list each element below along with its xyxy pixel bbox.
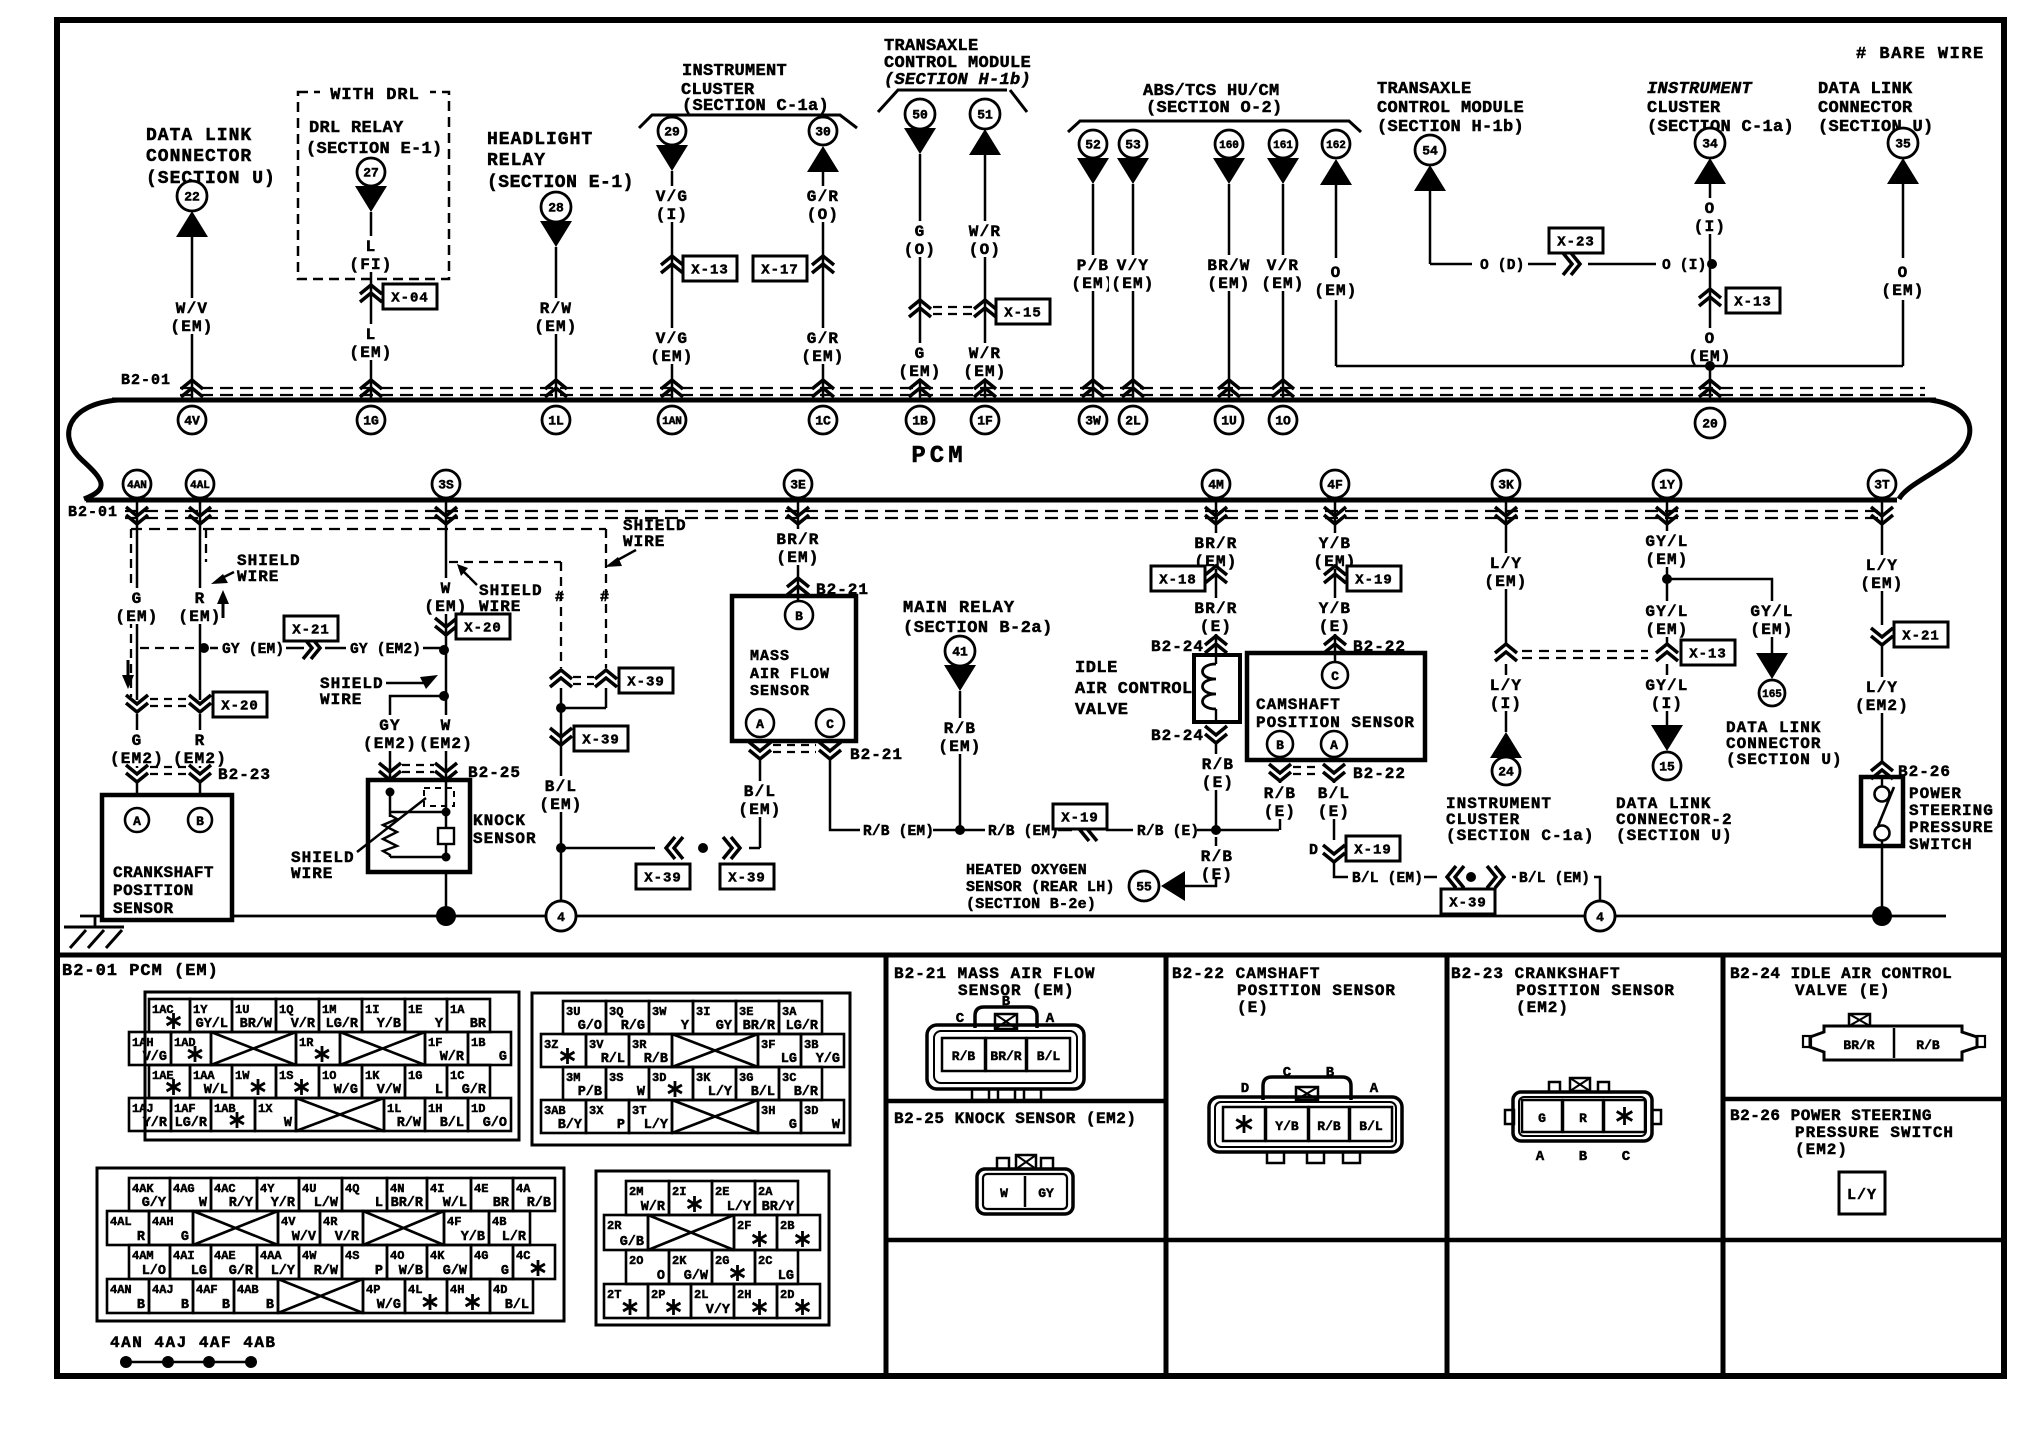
svg-text:GY/L: GY/L	[1750, 603, 1793, 621]
power steering pressure switch box	[1861, 777, 1903, 846]
camshaft position sensor column 4F	[1324, 507, 1346, 524]
svg-text:C: C	[1283, 1065, 1292, 1081]
svg-text:SENSOR: SENSOR	[113, 900, 174, 918]
svg-text:DATA LINK: DATA LINK	[146, 126, 252, 146]
inline connector X-19 D	[1309, 836, 1400, 862]
svg-text:R/B: R/B	[1317, 1119, 1341, 1134]
svg-text:1X: 1X	[258, 1102, 273, 1116]
terminal circle 165	[1759, 680, 1785, 706]
svg-text:R/B (EM): R/B (EM)	[863, 824, 934, 840]
svg-text:3T: 3T	[632, 1104, 646, 1118]
svg-text:1O: 1O	[322, 1069, 336, 1083]
svg-text:2R: 2R	[607, 1219, 622, 1233]
pin B MAF	[785, 601, 813, 629]
svg-text:L/Y: L/Y	[708, 1085, 733, 1100]
connector arrow 160	[1213, 158, 1245, 184]
wire G (O) from 50	[902, 154, 938, 399]
svg-text:3Z: 3Z	[544, 1038, 558, 1052]
svg-text:4D: 4D	[493, 1283, 507, 1297]
direction arrow down	[122, 660, 134, 689]
svg-text:3E: 3E	[739, 1005, 753, 1019]
pin circle 1G	[357, 406, 385, 434]
svg-text:B2-01: B2-01	[68, 504, 118, 521]
svg-text:2T: 2T	[607, 1288, 621, 1302]
terminal circle 27	[357, 158, 385, 186]
wire Y/B (E) label	[1317, 598, 1353, 636]
inline connector X-19 on Y/B	[1324, 566, 1401, 591]
bus entry chevron 1F	[974, 380, 996, 397]
svg-text:B2-24 IDLE AIR CONTROL: B2-24 IDLE AIR CONTROL	[1730, 965, 1952, 983]
svg-text:1B: 1B	[912, 414, 928, 429]
svg-text:1G: 1G	[408, 1069, 422, 1083]
svg-text:30: 30	[815, 125, 831, 140]
ground junction dot knock sensor	[436, 906, 456, 926]
knock sensor label	[473, 812, 537, 848]
power steering pressure switch column 3T	[1871, 507, 1893, 524]
wire V/R (EM) from 161	[1259, 184, 1306, 399]
shield drain elbow to GY (EM2)	[390, 696, 444, 712]
connector arrow 53	[1117, 158, 1149, 184]
svg-text:A: A	[756, 717, 764, 732]
pin circle 3E	[784, 470, 812, 498]
direction arrow up	[217, 590, 229, 618]
svg-text:B/L: B/L	[505, 1298, 529, 1313]
inline connector X-39 on B/L wire	[550, 708, 628, 770]
svg-text:VALVE (E): VALVE (E)	[1795, 982, 1890, 1000]
svg-text:BR/R: BR/R	[391, 1196, 424, 1211]
svg-text:3T: 3T	[1874, 478, 1890, 493]
pin circle 4M	[1202, 470, 1230, 498]
svg-text:B2-21 MASS AIR FLOW: B2-21 MASS AIR FLOW	[894, 965, 1095, 983]
connector arrow 162	[1320, 159, 1352, 185]
svg-text:GY: GY	[379, 717, 401, 735]
svg-text:R/L: R/L	[601, 1052, 625, 1067]
pin C MAF	[816, 709, 844, 737]
shield junction dot lower	[439, 691, 449, 701]
pin circle 4AL	[186, 470, 214, 498]
wire G (EM) from pin 4AN	[113, 502, 160, 700]
wire V/Y (EM) from 53	[1109, 184, 1156, 399]
terminal circle 24	[1492, 757, 1520, 785]
svg-text:(EM): (EM)	[1207, 275, 1250, 293]
svg-text:1O: 1O	[1275, 414, 1291, 429]
svg-text:POSITION SENSOR: POSITION SENSOR	[1516, 982, 1675, 1000]
svg-text:160: 160	[1219, 140, 1239, 152]
connector arrow 28	[540, 221, 572, 247]
svg-text:2D: 2D	[780, 1288, 794, 1302]
svg-text:LG/R: LG/R	[175, 1116, 208, 1131]
svg-text:(FI): (FI)	[349, 256, 392, 274]
connector arrow 55	[1161, 871, 1185, 901]
svg-text:1H: 1H	[428, 1102, 442, 1116]
terminal circle 161	[1269, 130, 1297, 158]
pin circle 3T	[1868, 470, 1896, 498]
svg-text:1I: 1I	[365, 1003, 379, 1017]
svg-text:4AN 4AJ 4AF 4AB: 4AN 4AJ 4AF 4AB	[110, 1334, 277, 1352]
svg-text:4AL: 4AL	[190, 480, 210, 492]
svg-text:(E): (E)	[1264, 803, 1296, 821]
svg-text:(EM): (EM)	[1645, 621, 1688, 639]
connector arrow 41	[944, 665, 976, 691]
svg-text:DRL RELAY: DRL RELAY	[309, 119, 404, 138]
terminal circle 35	[1888, 128, 1918, 158]
svg-text:(EM2): (EM2)	[110, 750, 164, 768]
svg-text:24: 24	[1498, 765, 1514, 780]
bus entry chevron 1B	[909, 380, 931, 397]
svg-text:BR/W: BR/W	[240, 1017, 273, 1032]
ground node circle 4 right	[1585, 901, 1615, 931]
pin circle 3W	[1079, 406, 1107, 434]
wire L/Y (EM) from 3K	[1482, 502, 1529, 644]
svg-text:G: G	[915, 223, 926, 241]
svg-text:X-04: X-04	[391, 291, 429, 307]
pin circle 1O	[1269, 406, 1297, 434]
inline connector X-21 right	[1871, 622, 1948, 647]
bus exit chevron 4AL	[189, 507, 211, 524]
svg-text:2G: 2G	[715, 1254, 729, 1268]
bus entry chevron 1G	[360, 380, 382, 397]
wire L/Y (EM2) to PSP switch	[1853, 645, 1911, 762]
bus entry chevron 1C	[812, 380, 834, 397]
data link connector column 1Y	[1656, 507, 1678, 524]
inline connector X-18	[1151, 566, 1227, 591]
svg-text:R/B (E): R/B (E)	[1137, 824, 1199, 840]
svg-text:1A: 1A	[450, 1003, 465, 1017]
svg-text:A: A	[1046, 1011, 1055, 1027]
svg-text:R/B: R/B	[1264, 785, 1296, 803]
svg-text:L/Y: L/Y	[1866, 557, 1898, 575]
svg-text:CRANKSHAFT: CRANKSHAFT	[113, 864, 214, 882]
svg-text:X-39: X-39	[627, 675, 665, 691]
transaxle control module bracket	[878, 90, 1027, 112]
svg-text:X-13: X-13	[1689, 647, 1727, 663]
WITH DRL dashed option box	[298, 84, 449, 279]
svg-text:PRESSURE: PRESSURE	[1909, 819, 1994, 837]
svg-text:4AM: 4AM	[132, 1249, 154, 1263]
svg-text:1L: 1L	[387, 1102, 401, 1116]
svg-text:(EM2): (EM2)	[419, 735, 473, 753]
svg-text:3E: 3E	[790, 478, 806, 493]
power steering pressure switch label	[1909, 785, 1994, 854]
svg-text:4G: 4G	[474, 1249, 488, 1263]
svg-text:O: O	[1705, 330, 1716, 348]
svg-text:B/L (EM): B/L (EM)	[1519, 871, 1590, 887]
connector arrow 22	[176, 211, 208, 237]
svg-text:3S: 3S	[438, 478, 454, 493]
connector B2-24 chevron lower	[1151, 726, 1227, 745]
svg-text:# BARE WIRE: # BARE WIRE	[1856, 45, 1985, 64]
svg-text:G/O: G/O	[578, 1019, 602, 1034]
ground junction dot right	[1872, 906, 1892, 926]
wire BR/W (EM) from 160	[1205, 184, 1252, 399]
svg-text:(EM): (EM)	[1071, 275, 1114, 293]
svg-text:Y/G: Y/G	[816, 1052, 840, 1067]
svg-text:G/W: G/W	[443, 1264, 468, 1279]
svg-text:2L: 2L	[694, 1288, 708, 1302]
svg-text:(EM): (EM)	[1750, 621, 1793, 639]
svg-text:SENSOR (EM): SENSOR (EM)	[958, 982, 1075, 1000]
svg-text:B: B	[222, 1298, 230, 1313]
svg-text:R/Y: R/Y	[229, 1196, 254, 1211]
svg-text:1G: 1G	[363, 414, 379, 429]
B2-24 IACV connector drawing	[1803, 1014, 1985, 1060]
ABS/TCS bracket	[1068, 121, 1361, 132]
svg-text:(SECTION E-1): (SECTION E-1)	[306, 140, 443, 159]
wire R (EM) from pin 4AL	[176, 502, 223, 700]
wire W/V (EM) from 22 to pin 4V	[168, 237, 215, 399]
svg-text:X-39: X-39	[644, 871, 682, 887]
svg-text:2O: 2O	[629, 1254, 643, 1268]
svg-text:W: W	[441, 717, 452, 735]
svg-text:1AB: 1AB	[214, 1102, 236, 1116]
ground bus line	[80, 915, 1946, 918]
terminal circle 34	[1695, 128, 1725, 158]
connector B2-22 row below	[1269, 764, 1406, 783]
svg-text:L/Y: L/Y	[1490, 677, 1522, 695]
svg-text:V/R: V/R	[1267, 257, 1299, 275]
svg-text:4AK: 4AK	[132, 1182, 154, 1196]
svg-text:G/Y: G/Y	[142, 1196, 167, 1211]
svg-text:SENSOR: SENSOR	[750, 683, 810, 700]
svg-text:POSITION SENSOR: POSITION SENSOR	[1256, 714, 1415, 732]
svg-text:HEADLIGHT: HEADLIGHT	[487, 130, 593, 150]
svg-text:R: R	[1579, 1111, 1587, 1126]
svg-text:DATA LINK: DATA LINK	[1818, 80, 1913, 99]
svg-text:RELAY: RELAY	[487, 151, 546, 171]
wire L (FI) from DRL relay	[347, 212, 394, 399]
svg-text:1C: 1C	[815, 414, 831, 429]
svg-text:(E): (E)	[1202, 774, 1234, 792]
connector B2-22 chevron upper	[1324, 636, 1406, 656]
section label B2-01 PCM (EM)	[62, 962, 219, 981]
svg-text:TRANSAXLE: TRANSAXLE	[1377, 80, 1472, 99]
svg-text:C: C	[1622, 1149, 1631, 1165]
svg-text:GY/L: GY/L	[1645, 603, 1688, 621]
svg-text:R/W: R/W	[314, 1264, 339, 1279]
svg-text:L/Y: L/Y	[1847, 1187, 1877, 1204]
wire G/R (EM) label	[799, 328, 846, 366]
svg-text:Y: Y	[435, 1017, 444, 1032]
wire P/B (EM) from 52	[1069, 184, 1116, 399]
svg-text:51: 51	[977, 108, 993, 123]
svg-text:CLUSTER: CLUSTER	[1647, 99, 1721, 118]
connector arrow 161	[1267, 158, 1299, 184]
svg-text:3U: 3U	[566, 1005, 580, 1019]
wire B/L (EM) splice right	[1334, 862, 1600, 901]
svg-text:P/B: P/B	[578, 1085, 602, 1100]
svg-text:(SECTION C-1a): (SECTION C-1a)	[1446, 827, 1594, 845]
svg-text:B2-01: B2-01	[121, 372, 171, 389]
svg-text:G/B: G/B	[620, 1235, 644, 1250]
svg-text:X-21: X-21	[292, 623, 330, 639]
svg-text:CAMSHAFT: CAMSHAFT	[1256, 696, 1341, 714]
bus exit chevron 4AN	[126, 507, 148, 524]
connector arrow 24	[1490, 732, 1522, 758]
pin circle 3K	[1492, 470, 1520, 498]
svg-text:1K: 1K	[365, 1069, 380, 1083]
svg-text:G: G	[501, 1264, 509, 1279]
inline connector X-13 on V/G wire	[661, 256, 737, 281]
svg-text:X-39: X-39	[1449, 896, 1487, 912]
terminal circle 29	[658, 117, 686, 145]
svg-text:W: W	[441, 580, 452, 598]
svg-text:X-13: X-13	[1734, 295, 1772, 311]
svg-text:B/L: B/L	[1359, 1119, 1383, 1134]
svg-text:(EM): (EM)	[1314, 282, 1357, 300]
svg-text:(EM): (EM)	[534, 318, 577, 336]
DRL relay header	[306, 119, 443, 159]
svg-text:B/L: B/L	[744, 783, 776, 801]
pin circle 20	[1695, 408, 1725, 438]
bus entry chevron 2L	[1122, 380, 1144, 397]
svg-text:B2-01 PCM (EM): B2-01 PCM (EM)	[62, 962, 219, 981]
pin circle 1Y	[1653, 470, 1681, 498]
mass air flow sensor box	[732, 596, 856, 741]
crankshaft position sensor label	[113, 864, 214, 918]
svg-text:B: B	[266, 1298, 274, 1313]
pin A MAF	[746, 709, 774, 737]
svg-text:W/R: W/R	[440, 1050, 465, 1065]
shield wire label top	[605, 517, 687, 567]
wire O (EM) from 162	[1312, 185, 1710, 366]
svg-text:B2-23: B2-23	[218, 766, 271, 784]
svg-text:R/B: R/B	[1916, 1038, 1940, 1053]
svg-text:3D: 3D	[652, 1071, 666, 1085]
svg-text:BR/R: BR/R	[990, 1049, 1021, 1064]
svg-text:2F: 2F	[737, 1219, 751, 1233]
svg-text:L/Y: L/Y	[1490, 555, 1522, 573]
terminal circle 55	[1129, 871, 1159, 901]
svg-text:4AH: 4AH	[152, 1215, 174, 1229]
svg-text:X-19: X-19	[1061, 811, 1099, 827]
svg-text:W: W	[199, 1196, 208, 1211]
svg-text:27: 27	[363, 166, 379, 181]
pin circle 4V	[178, 406, 206, 434]
connector arrow 50	[904, 128, 936, 154]
wire GY/L (I) to DLC-2	[1643, 664, 1690, 729]
svg-text:3I: 3I	[696, 1005, 710, 1019]
section label B2-23	[1451, 965, 1675, 1017]
svg-text:B/L: B/L	[1318, 785, 1350, 803]
svg-text:WIRE: WIRE	[237, 568, 279, 586]
svg-text:1F: 1F	[977, 414, 993, 429]
svg-text:1AF: 1AF	[174, 1102, 196, 1116]
bottom panel divider	[57, 953, 2004, 958]
svg-text:X-18: X-18	[1159, 573, 1197, 589]
svg-text:4U: 4U	[302, 1182, 316, 1196]
svg-text:GY/L: GY/L	[1645, 677, 1688, 695]
svg-text:3B: 3B	[804, 1038, 818, 1052]
svg-text:G: G	[181, 1230, 189, 1245]
wire L/Y (EM) from 3T	[1858, 502, 1905, 625]
wire BR/R (EM) to MAF	[774, 502, 821, 600]
IACV coil symbol	[1203, 655, 1217, 722]
B2-22 camshaft connector drawing	[1209, 1065, 1402, 1163]
shield wire label left	[211, 552, 301, 586]
svg-text:20: 20	[1702, 417, 1718, 432]
svg-text:(EM): (EM)	[115, 608, 158, 626]
svg-text:1AC: 1AC	[152, 1003, 174, 1017]
svg-text:V/G: V/G	[656, 188, 688, 206]
svg-text:161: 161	[1273, 140, 1293, 152]
svg-text:G/R: G/R	[462, 1083, 487, 1098]
wire W/R (EM) label	[961, 343, 1008, 381]
svg-text:O: O	[657, 1269, 665, 1284]
svg-text:(I): (I)	[656, 206, 688, 224]
svg-text:BR/R: BR/R	[1194, 600, 1237, 618]
svg-text:D: D	[1309, 842, 1318, 859]
svg-text:50: 50	[912, 108, 928, 123]
shield wire dashed sheath left	[131, 529, 606, 697]
svg-text:L/O: L/O	[142, 1264, 166, 1279]
svg-text:(EM): (EM)	[1645, 551, 1688, 569]
svg-text:G: G	[789, 1118, 797, 1133]
svg-text:(SECTION H-1b): (SECTION H-1b)	[1377, 118, 1524, 137]
svg-text:4AG: 4AG	[173, 1182, 195, 1196]
wire R/B (E) from IACV	[1200, 743, 1236, 830]
wire L/Y (I) to instrument cluster	[1488, 664, 1524, 732]
svg-text:PCM: PCM	[911, 443, 966, 470]
knock sensor box	[368, 780, 470, 872]
svg-text:L: L	[366, 326, 377, 344]
svg-text:(EM): (EM)	[650, 348, 693, 366]
shield sheath X-39 row	[550, 668, 673, 693]
svg-text:3M: 3M	[566, 1071, 580, 1085]
svg-text:B2-23 CRANKSHAFT: B2-23 CRANKSHAFT	[1451, 965, 1621, 983]
pin circle 1C	[809, 406, 837, 434]
connector arrow 29	[656, 145, 688, 171]
connector B2-21 chevron	[787, 578, 869, 599]
svg-text:L/Y: L/Y	[644, 1118, 669, 1133]
wire B/L (EM) from MAF pin A	[736, 759, 783, 848]
svg-text:2C: 2C	[758, 1254, 772, 1268]
svg-text:WIRE: WIRE	[623, 533, 665, 551]
svg-text:GY: GY	[716, 1019, 733, 1034]
svg-text:3A: 3A	[782, 1005, 797, 1019]
PCM connector table 1 (1A-1AJ)	[129, 992, 519, 1140]
junction dot B/L	[556, 843, 566, 853]
connector B2-23 row	[126, 765, 271, 797]
svg-text:29: 29	[664, 125, 680, 140]
svg-text:3F: 3F	[761, 1038, 775, 1052]
wire BR/R (EM) to IACV	[1192, 502, 1239, 657]
svg-text:W: W	[832, 1118, 841, 1133]
wire V/G (EM) label	[648, 328, 695, 366]
shield sheath join dot	[556, 688, 606, 713]
svg-text:Y/B: Y/B	[1319, 535, 1351, 553]
wire R/B (E) to oxygen sensor	[1185, 837, 1235, 886]
svg-text:L/Y: L/Y	[271, 1264, 296, 1279]
svg-text:4A: 4A	[516, 1182, 531, 1196]
bus entry chevron 1O	[1272, 380, 1294, 397]
svg-text:4F: 4F	[447, 1215, 461, 1229]
shield junction dot upper	[439, 645, 449, 655]
svg-text:B/L (EM): B/L (EM)	[1352, 871, 1423, 887]
svg-text:Y/R: Y/R	[271, 1196, 296, 1211]
svg-text:L/Y: L/Y	[1866, 679, 1898, 697]
section label B2-25	[894, 1110, 1136, 1128]
svg-text:GY (EM2): GY (EM2)	[350, 642, 421, 658]
svg-text:(EM): (EM)	[539, 796, 582, 814]
bottom panel row dividers	[886, 1099, 2004, 1240]
svg-text:GY (EM): GY (EM)	[222, 642, 284, 658]
svg-text:L/R: L/R	[502, 1230, 527, 1245]
transaxle control module header right	[1377, 80, 1524, 137]
data link connector header right	[1818, 80, 1934, 137]
inline connector X-39 left box	[636, 864, 690, 889]
svg-text:22: 22	[184, 190, 200, 205]
svg-text:B: B	[137, 1298, 145, 1313]
